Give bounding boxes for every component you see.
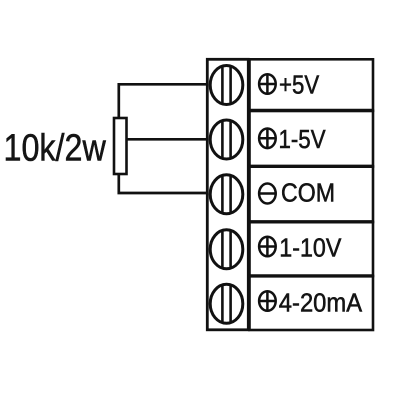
wire from R1 wiper to 1-5V terminal — [127, 138, 211, 141]
label box COM — [250, 167, 374, 223]
terminal screw 1 — [210, 64, 243, 106]
label box +5V — [250, 59, 374, 111]
terminal screw 4 — [210, 228, 243, 271]
resistor R1 — [114, 118, 127, 174]
svg-text:COM: COM — [281, 179, 335, 208]
svg-text:10k/2w: 10k/2w — [4, 127, 107, 169]
divider line between COM and 1-10V boxes — [248, 220, 373, 223]
svg-text:4-20mA: 4-20mA — [279, 288, 363, 317]
wire from R1 top to +5V terminal — [119, 84, 210, 118]
terminal screw 2 — [210, 118, 243, 161]
svg-text:1-10V: 1-10V — [279, 234, 342, 262]
label box 1-5V — [250, 111, 374, 167]
svg-text:1-5V: 1-5V — [279, 125, 327, 154]
label box 4-20mA — [250, 276, 374, 330]
polarity symbol plus for 1-10V — [259, 237, 276, 257]
svg-text:+5V: +5V — [279, 71, 320, 100]
divider line between +5V and 1-5V boxes — [248, 109, 373, 112]
divider line between 1-10V and 4-20mA boxes — [248, 274, 373, 277]
polarity symbol minus for COM — [258, 184, 277, 204]
terminal block body — [207, 59, 248, 330]
wire from R1 bottom to COM terminal — [119, 174, 209, 193]
divider line between 1-5V and COM boxes — [248, 165, 373, 168]
polarity symbol plus for 1-5V — [259, 129, 276, 149]
terminal screw 5 — [210, 283, 243, 326]
polarity symbol plus for +5V — [259, 74, 276, 94]
polarity symbol plus for 4-20mA — [259, 291, 276, 311]
label box 1-10V — [250, 222, 374, 276]
terminal screw 3 — [210, 173, 243, 216]
